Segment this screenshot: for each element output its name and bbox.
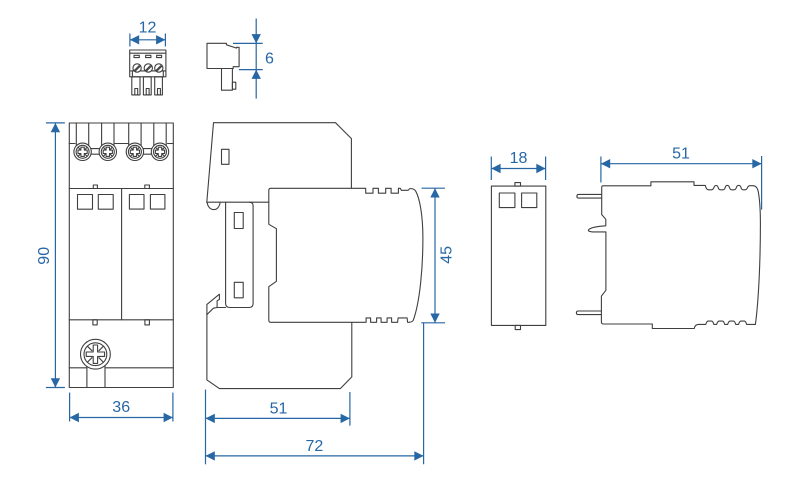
leg 1 xyxy=(132,77,140,95)
scallop line xyxy=(130,70,165,72)
arrow right of 18 xyxy=(536,164,545,173)
dim 51r line xyxy=(601,163,762,165)
arrow down of 90 xyxy=(51,378,60,387)
base upper slot xyxy=(222,149,230,164)
screw B xyxy=(144,64,152,72)
plug side outline xyxy=(588,182,760,329)
terminal block lid line xyxy=(130,52,166,54)
terminal wall 3b xyxy=(140,123,142,147)
dim 45 top tick xyxy=(422,187,445,189)
svg-text:45: 45 xyxy=(438,246,455,264)
plug front window 2 xyxy=(522,193,537,208)
screw T4 xyxy=(151,143,168,160)
plug front bottom tab xyxy=(515,325,520,329)
front screws xyxy=(74,143,169,160)
screw T2 xyxy=(99,143,116,160)
ext line 51m left xyxy=(205,390,207,465)
dim 90 bottom tick xyxy=(46,387,65,389)
module 2 top tab xyxy=(145,185,150,189)
svg-text:12: 12 xyxy=(139,19,157,36)
svg-text:51: 51 xyxy=(270,401,288,418)
module 1 window 1 xyxy=(78,195,93,210)
terminal wall 2a xyxy=(101,123,103,147)
plug front body xyxy=(491,186,545,325)
dim 90 line xyxy=(54,123,56,388)
dim 51m line xyxy=(206,417,350,419)
plug pin top xyxy=(577,194,602,198)
din column slot bottom xyxy=(234,282,243,298)
dim 45 bottom tick xyxy=(421,322,445,324)
ext line 51m right xyxy=(349,392,351,426)
arrow left of 12 xyxy=(130,35,139,44)
plug front window 1 xyxy=(499,193,515,208)
plug pin bottom xyxy=(576,311,601,315)
arrow left of 72 xyxy=(206,451,215,460)
dim 6 vertical line xyxy=(255,19,257,99)
din column xyxy=(226,202,254,307)
terminal wall 4b xyxy=(165,123,167,147)
neck pair 2 top xyxy=(141,148,153,150)
din bottom hook inner xyxy=(207,308,217,315)
module 1 bottom tab xyxy=(93,320,97,325)
dimension line xyxy=(130,39,166,41)
neck pair 2 bottom xyxy=(141,153,153,155)
arrow right of 51m xyxy=(341,414,350,423)
extension line right xyxy=(164,34,166,47)
arrow right of 51r xyxy=(752,159,761,168)
din column slot top xyxy=(234,213,243,229)
dim 72 line xyxy=(206,455,424,457)
arrow right of 72 xyxy=(414,451,423,460)
arrow left of 36 xyxy=(70,413,79,422)
screw T3 xyxy=(126,143,143,160)
base upper bottom edge xyxy=(207,201,269,203)
ext line 36 right xyxy=(172,393,174,422)
screw T1 xyxy=(74,143,91,160)
scallop segment left xyxy=(69,143,75,145)
plug module outline xyxy=(269,188,423,322)
terminal wall 2b xyxy=(113,123,115,147)
base lower outline xyxy=(207,315,352,389)
screw C xyxy=(155,64,163,72)
arrow down to top tick xyxy=(252,34,261,43)
svg-text:36: 36 xyxy=(112,399,130,416)
arrow left of 18 xyxy=(491,164,500,173)
arrow up to bottom tick xyxy=(252,70,261,79)
arrow right of 12 xyxy=(156,35,165,44)
step left xyxy=(131,71,133,77)
arrow up of 45 xyxy=(430,188,439,197)
base line right xyxy=(105,367,173,369)
ext line 18 right xyxy=(545,157,547,181)
svg-text:18: 18 xyxy=(510,150,528,167)
slot 3 xyxy=(157,55,162,57)
terminal wall 3a xyxy=(128,123,130,147)
connector pin tab xyxy=(232,82,235,89)
connector pin block xyxy=(222,69,233,91)
slot 1 xyxy=(134,55,139,57)
leg 2 notch xyxy=(146,89,149,95)
module top line xyxy=(69,188,173,190)
base upper outline xyxy=(207,123,352,203)
plug front top tab xyxy=(515,183,521,187)
ext line 36 left xyxy=(69,393,71,422)
dim 6 bottom tick xyxy=(239,69,263,71)
tongue left edge xyxy=(86,362,88,388)
module bottom line xyxy=(69,319,173,321)
module 1 top tab xyxy=(93,185,97,189)
module 2 bottom tab xyxy=(145,320,150,325)
leg 3 xyxy=(155,77,163,95)
big screw xyxy=(81,339,111,369)
svg-text:72: 72 xyxy=(306,438,324,455)
dim 45 line xyxy=(434,188,436,323)
tongue right edge xyxy=(104,362,106,388)
leg 2 xyxy=(143,77,151,95)
terminal block body xyxy=(130,50,166,77)
connector body xyxy=(207,43,239,68)
slot 2 xyxy=(146,55,151,57)
dim 6 top tick xyxy=(233,42,263,44)
scallop segment middle xyxy=(114,143,129,145)
module separator xyxy=(121,189,123,320)
din bottom hook xyxy=(207,294,226,314)
ext line 45-72 right xyxy=(423,323,425,465)
din top catch xyxy=(207,203,220,210)
arrow down of 45 xyxy=(430,314,439,323)
ext line 18 left xyxy=(490,157,492,181)
leg 1 notch xyxy=(135,89,138,95)
module 2 window 1 xyxy=(129,195,144,210)
terminal wall 1a xyxy=(75,123,77,147)
front body outline xyxy=(69,123,173,388)
ext line 51r right xyxy=(761,156,763,210)
arrow right of 36 xyxy=(164,413,173,422)
dim 18 line xyxy=(491,168,545,170)
neck pair 1 bottom xyxy=(89,153,102,155)
arrow left of 51m xyxy=(206,414,215,423)
module 1 window 2 xyxy=(98,195,113,210)
terminal wall 4a xyxy=(153,123,155,147)
dim 90 top tick xyxy=(46,122,65,124)
ext line 51r left xyxy=(600,157,602,183)
base line left xyxy=(69,367,87,369)
svg-text:90: 90 xyxy=(36,247,53,265)
screw A xyxy=(133,64,141,72)
leg 3 notch xyxy=(158,89,161,95)
module 2 window 2 xyxy=(150,195,165,210)
dim 36 line xyxy=(70,417,173,419)
scallop segment right xyxy=(168,143,174,145)
step right xyxy=(162,71,164,77)
neck pair 1 top xyxy=(89,148,102,150)
svg-text:51: 51 xyxy=(672,145,690,162)
terminal wall 1b xyxy=(88,123,90,147)
arrow up of 90 xyxy=(51,123,60,132)
svg-text:6: 6 xyxy=(265,50,274,67)
arrow left of 51r xyxy=(601,159,610,168)
extension line left xyxy=(129,34,131,47)
